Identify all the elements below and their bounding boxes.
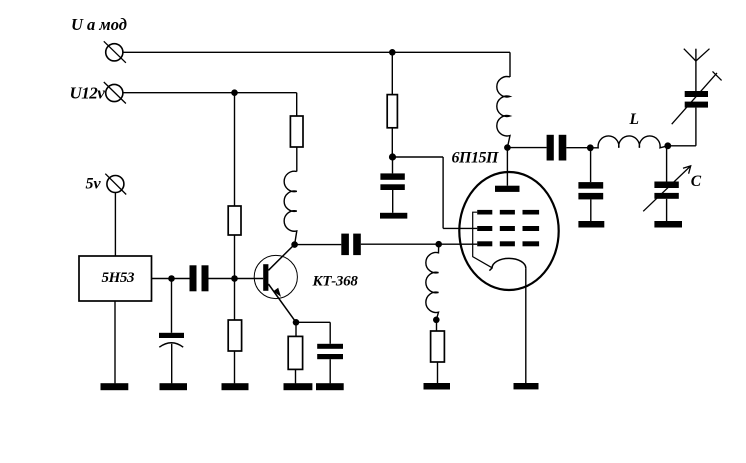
grid g3 row — [477, 210, 539, 215]
wire antenna node down — [666, 146, 668, 182]
resistor R grid — [431, 331, 445, 362]
capacitor trimmer curved plate — [159, 343, 183, 347]
capacitor C2 coupling — [341, 234, 361, 256]
junction screen node — [389, 153, 396, 160]
ground cathode — [514, 383, 539, 389]
svg-text:5Н53: 5Н53 — [102, 270, 135, 286]
wire divider lower — [234, 351, 236, 383]
wire anode node to plate — [506, 148, 508, 186]
wire tank node down — [590, 148, 592, 182]
resistor R screen — [387, 95, 397, 128]
wire screen resistor down — [391, 128, 393, 157]
capacitor antenna trimmer — [685, 91, 708, 108]
trimmer slash tick — [713, 71, 722, 80]
wire anode feed down — [391, 52, 393, 94]
capacitor variable C — [654, 182, 678, 199]
inductor L — [590, 136, 668, 148]
wire divider middle — [234, 235, 236, 320]
anode plate — [495, 186, 520, 192]
svg-text:6П15П: 6П15П — [452, 150, 499, 167]
wire anode node to C3 — [507, 147, 546, 149]
resistor R divider upper — [228, 206, 241, 235]
junction base divider top — [231, 89, 238, 96]
wire tank cap to ground — [590, 199, 592, 221]
capacitor C1 coupling — [190, 265, 209, 291]
junction grid node — [435, 241, 442, 248]
grid g2 row — [477, 226, 539, 231]
wire oscillator to ground — [114, 301, 116, 383]
ground screen bypass — [380, 213, 407, 219]
svg-text:U12v: U12v — [70, 84, 106, 103]
wire divider upper — [234, 93, 236, 206]
wire screen node to cap — [392, 157, 394, 173]
oscillator box U1 5H53 — [79, 256, 152, 301]
svg-text:КТ-368: КТ-368 — [312, 274, 359, 290]
trimmer slash — [672, 73, 717, 124]
wire antenna mast — [695, 49, 697, 91]
ground tank — [578, 221, 604, 228]
inductor grid choke — [426, 244, 439, 320]
ground oscillator — [101, 383, 129, 390]
wire 5v to oscillator — [114, 193, 116, 257]
wire antenna feed up — [695, 108, 697, 146]
cathode — [489, 258, 525, 270]
ground emitter cap — [316, 383, 344, 390]
ground emitter — [284, 383, 313, 390]
inductor plate choke — [497, 77, 510, 148]
wire U12v to collector resistor — [296, 93, 298, 116]
wire C1 to base node — [209, 278, 264, 280]
wire trimmer to ground — [171, 344, 173, 384]
arrow variable C — [643, 166, 691, 211]
wire Ua-mod bus — [123, 51, 510, 53]
wire collector node to C2 — [295, 244, 342, 246]
capacitor emitter bypass — [317, 344, 343, 359]
wire trimmer branch — [171, 279, 173, 333]
junction collector node — [291, 241, 298, 248]
wire U12v bus — [123, 92, 297, 94]
wire screen into tube — [443, 227, 477, 229]
svg-text:5v: 5v — [86, 176, 102, 193]
tube envelope — [459, 172, 558, 290]
wire screen cap to ground — [392, 190, 394, 213]
capacitor C3 coupling — [547, 135, 567, 161]
wire cathode to ground — [525, 268, 527, 383]
ground divider — [222, 383, 249, 390]
svg-text:U а мод: U а мод — [71, 15, 127, 34]
resistor R divider lower — [228, 320, 241, 351]
wire antenna node right — [668, 145, 696, 147]
wire choke to grid resistor — [436, 320, 438, 331]
wire emitter cap to ground — [329, 359, 331, 383]
junction grid choke bottom — [433, 317, 440, 324]
wire screen vertical — [442, 157, 444, 228]
antenna — [684, 49, 710, 61]
wire resistor to choke — [296, 147, 298, 172]
terminal 5v — [105, 174, 126, 195]
inductor collector choke — [284, 171, 297, 244]
transistor Q1 KT-368 — [254, 245, 297, 323]
capacitor trimmer top plate — [159, 333, 184, 338]
svg-text:C: C — [691, 173, 702, 190]
wire emitter resistor to ground — [295, 369, 297, 383]
junction anode feed node — [389, 49, 396, 56]
junction oscillator output node — [168, 275, 175, 282]
ground grid — [424, 383, 451, 390]
wire plate feed down — [509, 52, 511, 77]
capacitor screen bypass — [380, 173, 404, 190]
junction emitter node — [293, 319, 300, 326]
wire emitter cap down — [329, 322, 331, 344]
wire emitter node right — [296, 321, 330, 323]
terminal U12v — [104, 82, 126, 104]
wire variable C to ground — [666, 199, 668, 221]
vacuum tube 6P15P — [459, 172, 558, 389]
junction tank node — [587, 144, 594, 151]
capacitor tank — [578, 182, 603, 199]
wire C2 to grid node — [361, 243, 477, 245]
ground variable C — [654, 221, 682, 228]
wire emitter resistor — [295, 322, 297, 336]
wire screen node horizontal — [393, 156, 444, 158]
grid g1 row — [477, 241, 539, 246]
resistor R emitter — [288, 336, 302, 369]
junction antenna node — [664, 142, 671, 149]
resistor R collector choke — [290, 116, 303, 147]
junction base node — [231, 275, 238, 282]
wire oscillator output — [152, 278, 190, 280]
wire C3 to tank node — [566, 147, 590, 149]
ground trimmer — [160, 383, 188, 390]
wire grid resistor to ground — [437, 362, 439, 383]
svg-text:L: L — [629, 111, 639, 128]
suppressor tie wire — [473, 212, 492, 268]
junction anode node — [504, 144, 511, 151]
terminal Ua mod — [104, 41, 126, 63]
